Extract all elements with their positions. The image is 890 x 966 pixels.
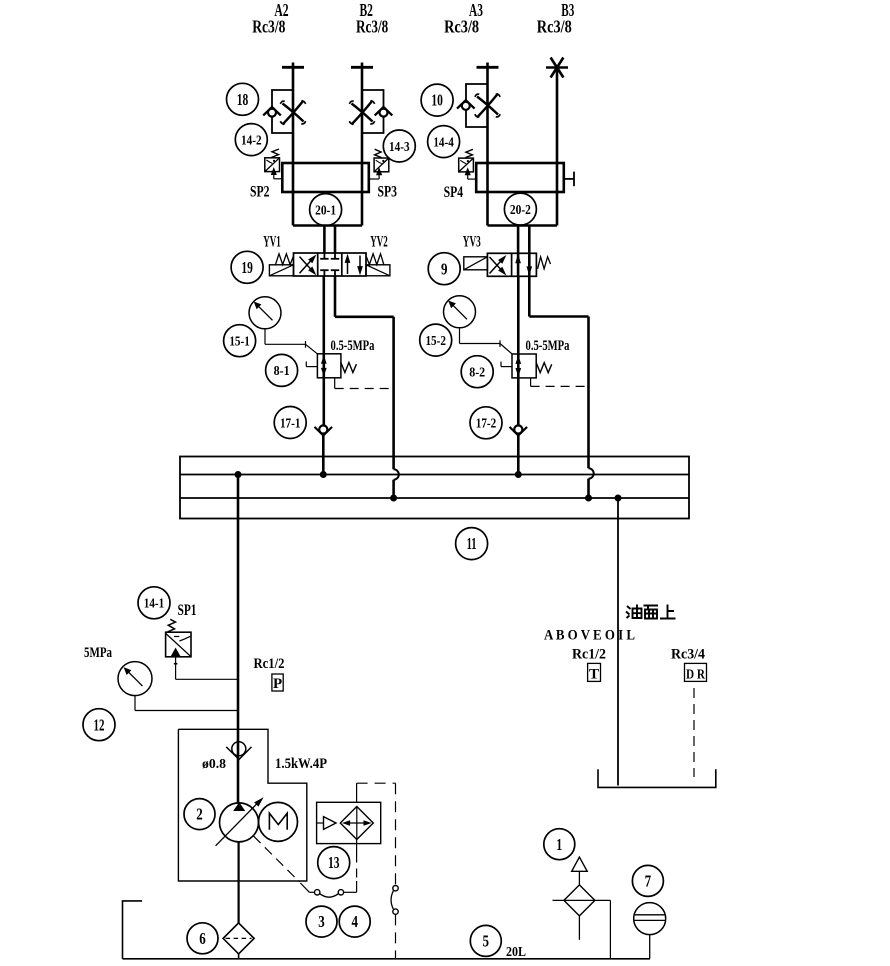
- motor M circle: [259, 802, 298, 841]
- pressure gauge 15-1: [249, 297, 281, 329]
- svg-text:8-1: 8-1: [274, 364, 290, 379]
- control line dashed top: [357, 782, 396, 784]
- pressure gauge 12: [118, 662, 152, 696]
- svg-text:8-2: 8-2: [469, 365, 485, 380]
- balloon 14-1: [138, 587, 170, 619]
- balloon 15-2: [420, 324, 452, 356]
- wire tank return: [617, 498, 619, 786]
- balloon 4: [339, 906, 370, 937]
- junction dot P-rail col2: [515, 471, 522, 478]
- wire T-line col2: [529, 276, 588, 468]
- svg-text:P: P: [273, 676, 282, 692]
- pressure reducing valve 8-1: [306, 354, 356, 378]
- label motor power: [275, 756, 327, 772]
- svg-text:20-1: 20-1: [315, 203, 336, 218]
- pump variable arrow: [216, 798, 263, 846]
- label Rc1/2 T: [572, 647, 606, 663]
- check ball A3: [457, 100, 475, 110]
- directional valve 9: [464, 253, 551, 276]
- node A2 port label: [252, 0, 288, 37]
- svg-text:SP1: SP1: [178, 602, 197, 619]
- wire drain 8-2: [531, 378, 589, 387]
- manifold 11 body: [180, 457, 689, 519]
- wire check to manifold col2: [517, 435, 520, 474]
- label 0.5-5MPa col1: [331, 338, 376, 354]
- wire B2 line: [361, 67, 364, 225]
- svg-text:4: 4: [351, 912, 358, 931]
- svg-text:Rc3/8: Rc3/8: [252, 17, 285, 37]
- pump 2 circle: [220, 803, 259, 842]
- inlet check with orifice: [226, 742, 251, 760]
- svg-text:Rc1/2: Rc1/2: [572, 647, 606, 663]
- manifold block 20-2: [476, 163, 564, 192]
- svg-text:ø0.8: ø0.8: [202, 757, 226, 772]
- level gauge 7: [634, 903, 666, 959]
- svg-text:18: 18: [237, 90, 249, 109]
- balloon 2: [184, 799, 215, 830]
- svg-text:10: 10: [431, 91, 443, 110]
- svg-text:20L: 20L: [506, 945, 526, 960]
- svg-text:11: 11: [467, 534, 477, 553]
- svg-text:0.5-5MPa: 0.5-5MPa: [526, 338, 571, 354]
- svg-text:12: 12: [94, 715, 105, 734]
- wire gauge 15-1 connection: [265, 329, 318, 354]
- svg-text:7: 7: [645, 872, 652, 891]
- svg-text:3: 3: [318, 912, 325, 931]
- flow control valve 18 loop A2: [272, 90, 293, 133]
- wire A2 line: [292, 67, 295, 225]
- svg-text:0.5-5MPa: 0.5-5MPa: [331, 338, 376, 354]
- label YV3: [463, 234, 481, 251]
- node A3 port label: [444, 0, 483, 37]
- wire drain 8-1: [335, 378, 394, 389]
- balloon 13: [318, 847, 350, 879]
- balloon 17-1: [274, 407, 306, 439]
- tank bottom line: [123, 958, 651, 960]
- hop over P-rail col1: [394, 469, 399, 498]
- svg-text:YV2: YV2: [370, 234, 388, 251]
- junction dot T-rail col2: [585, 495, 592, 502]
- wire check to manifold col1: [322, 435, 325, 474]
- svg-text:9: 9: [441, 259, 448, 278]
- svg-text:6: 6: [199, 929, 206, 948]
- label SP4: [444, 184, 464, 201]
- svg-text:Rc3/8: Rc3/8: [444, 17, 479, 37]
- balloon 12: [83, 709, 115, 741]
- label ABOVE OIL: [544, 628, 635, 644]
- svg-text:14-1: 14-1: [144, 597, 165, 612]
- svg-text:YV1: YV1: [263, 234, 281, 251]
- pressure reducing valve 8-2: [501, 354, 552, 378]
- balloon 6: [187, 923, 218, 954]
- boxed letters DR: [685, 663, 707, 682]
- balloon 1: [544, 829, 575, 860]
- wire pump suction: [238, 842, 240, 923]
- pressure switch SP2 (14-2): [265, 149, 283, 179]
- wire cooler stem up: [356, 783, 358, 802]
- wire A3 line: [486, 67, 489, 225]
- balloon 20-2: [504, 193, 536, 225]
- balloon 8-1: [266, 354, 298, 386]
- svg-text:15-1: 15-1: [229, 334, 250, 349]
- wire P-line col1: [322, 276, 325, 425]
- balloon 18: [227, 83, 259, 115]
- wire gauge 12 connection: [135, 696, 238, 711]
- wire P-line col2: [517, 276, 520, 425]
- balloon 5: [470, 925, 501, 956]
- port B2 terminal: [351, 63, 373, 68]
- label Rc1/2 P: [254, 656, 285, 672]
- flow control valve 10 loop A3: [466, 84, 488, 127]
- svg-text:20-2: 20-2: [510, 203, 531, 218]
- svg-text:Rc1/2: Rc1/2: [254, 656, 285, 672]
- drain dashed line: [693, 688, 695, 777]
- balloon 19: [231, 251, 263, 283]
- pressure switch SP3 (14-3): [369, 149, 389, 179]
- junction dot T-rail col1: [390, 495, 397, 502]
- wire valve19 port B: [334, 226, 337, 254]
- check valve 17-2: [510, 425, 528, 435]
- svg-text:13: 13: [328, 853, 340, 872]
- switch on right control branch: [391, 886, 398, 959]
- port B3 plug: [546, 58, 568, 78]
- svg-text:SP3: SP3: [378, 184, 398, 201]
- label you-mian-shang (above oil): [626, 605, 676, 619]
- control line dashed right: [395, 783, 397, 885]
- pump control dashed: [254, 836, 300, 882]
- svg-text:2: 2: [196, 805, 203, 824]
- balloon 9: [428, 253, 460, 285]
- pressure switch SP1 (14-1): [166, 619, 238, 679]
- balloon 17-2: [470, 407, 502, 439]
- svg-text:1: 1: [556, 835, 562, 854]
- svg-text:A B O V E O I L: A B O V E O I L: [544, 628, 635, 644]
- balloon 7: [632, 865, 663, 896]
- junction dot P-rail col1: [320, 471, 327, 478]
- balloon 14-4: [428, 126, 460, 158]
- label orifice: [202, 757, 226, 772]
- throttle A2: [280, 101, 305, 125]
- balloon 11: [456, 528, 488, 560]
- check valve 17-1: [315, 425, 333, 435]
- svg-text:17-2: 17-2: [476, 417, 497, 432]
- port A2 terminal: [282, 63, 304, 68]
- pressure gauge 15-2: [444, 296, 476, 328]
- boxed letter P: [272, 674, 283, 692]
- power unit enclosure: [178, 729, 306, 881]
- label YV1: [263, 234, 281, 251]
- tank left bracket: [123, 901, 143, 959]
- svg-text:17-1: 17-1: [280, 416, 301, 431]
- svg-text:1.5kW.4P: 1.5kW.4P: [275, 756, 327, 772]
- svg-text:SP4: SP4: [444, 184, 464, 201]
- flow control valve 18 loop B2: [362, 90, 384, 133]
- pump outlet triangle: [234, 803, 245, 811]
- wire gauge 15-2 connection: [460, 328, 513, 354]
- wire U below 20-2: [488, 224, 558, 227]
- svg-text:19: 19: [241, 258, 253, 277]
- pressure switch SP4 (14-4): [459, 149, 477, 179]
- check ball A2: [263, 107, 281, 117]
- plug on 20-2 right: [564, 172, 574, 187]
- directional valve 19: [269, 253, 390, 276]
- switch contacts 3-4: [300, 883, 356, 897]
- label Rc3/4 DR: [671, 647, 705, 663]
- label YV2: [370, 234, 388, 251]
- boxed letter T: [588, 663, 601, 682]
- svg-text:D R: D R: [686, 667, 706, 682]
- junction dot T-rail return: [615, 495, 622, 502]
- balloon 14-3: [383, 130, 415, 162]
- port A3 terminal: [477, 63, 499, 68]
- svg-text:Rc3/8: Rc3/8: [537, 17, 572, 37]
- svg-text:5: 5: [483, 932, 490, 951]
- svg-text:SP2: SP2: [250, 184, 270, 201]
- air breather 1: [553, 857, 611, 959]
- svg-text:15-2: 15-2: [425, 334, 446, 349]
- node B3 port label: [537, 0, 575, 37]
- junction dot P-rail pump: [235, 471, 242, 478]
- node B2 port label: [356, 0, 388, 37]
- svg-text:T: T: [589, 666, 599, 682]
- wire valve19 port A: [323, 226, 326, 254]
- balloon 10: [421, 84, 453, 116]
- balloon 8-2: [461, 356, 493, 388]
- balloon 3: [306, 906, 337, 937]
- throttle A3: [475, 94, 500, 118]
- wire B3 line: [556, 68, 559, 226]
- wire valve9 port B: [528, 226, 531, 277]
- balloon 20-1: [310, 194, 342, 226]
- hop over P-rail col2: [589, 468, 594, 498]
- svg-text:14-2: 14-2: [241, 133, 262, 148]
- wire pump riser: [237, 475, 240, 804]
- svg-text:Rc3/8: Rc3/8: [356, 17, 388, 37]
- balloon 15-1: [224, 325, 256, 357]
- label 0.5-5MPa col2: [526, 338, 571, 354]
- wire cooler stem down: [356, 840, 358, 893]
- label 5MPa: [84, 645, 113, 661]
- svg-text:14-3: 14-3: [389, 140, 410, 155]
- svg-text:Rc3/4: Rc3/4: [671, 647, 705, 663]
- svg-text:14-4: 14-4: [433, 135, 454, 150]
- label SP2: [250, 184, 270, 201]
- manifold block 20-1: [282, 163, 369, 192]
- label SP3: [378, 184, 398, 201]
- label SP1: [178, 602, 197, 619]
- balloon 14-2: [235, 124, 267, 156]
- cooler unit 13: [317, 802, 381, 843]
- wire T-line col1: [335, 276, 394, 469]
- suction filter 6: [223, 923, 254, 959]
- label 20L: [506, 945, 526, 960]
- svg-text:5MPa: 5MPa: [84, 645, 113, 661]
- check ball B2: [375, 107, 393, 117]
- tank symbol: [598, 769, 716, 787]
- svg-text:YV3: YV3: [463, 234, 481, 251]
- wire U below 20-1: [293, 224, 362, 227]
- wire valve9 port A: [517, 226, 520, 277]
- throttle B2: [349, 101, 374, 125]
